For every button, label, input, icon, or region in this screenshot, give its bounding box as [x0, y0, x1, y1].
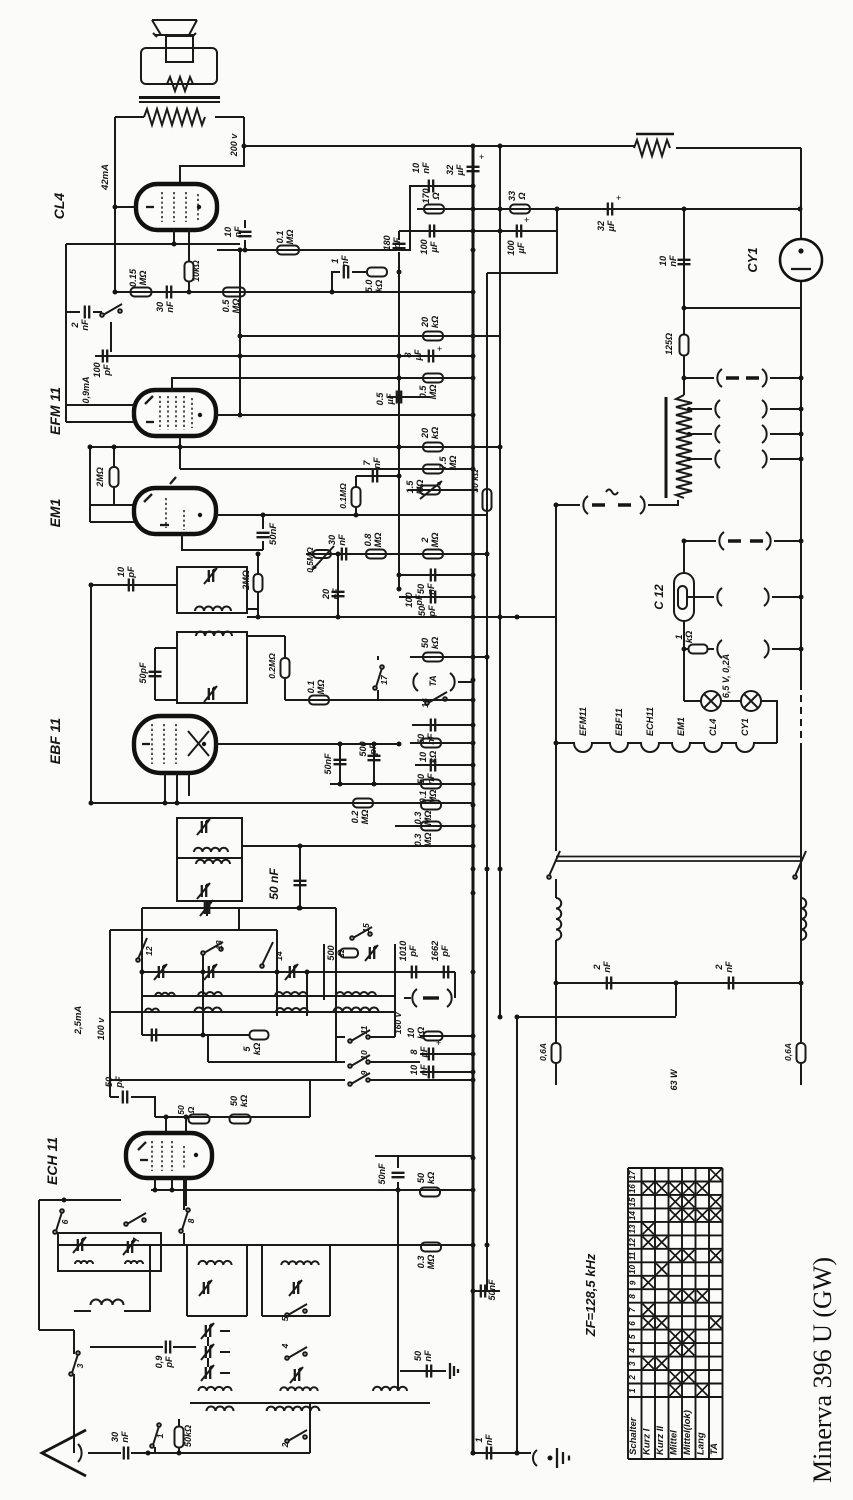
right rail [800, 148, 802, 239]
IF1 upper coil [195, 607, 231, 611]
svg-text:15: 15 [628, 1197, 637, 1207]
svg-text:Ω: Ω [186, 1106, 196, 1114]
capacitor 10nF rail [429, 180, 433, 193]
svg-text:nF: nF [423, 1350, 433, 1362]
svg-text:4: 4 [280, 1343, 290, 1349]
svg-text:0.5: 0.5 [221, 299, 231, 313]
switch 17 [377, 690, 379, 700]
resistor 0.2M b [353, 799, 373, 808]
rail x398 [397, 1190, 399, 1391]
capacitor 50nF if2 [299, 846, 301, 908]
svg-text:2: 2 [70, 322, 80, 329]
osc coil row4 [207, 1407, 234, 1411]
svg-text:EFM 11: EFM 11 [47, 387, 63, 435]
capacitor 20nF [337, 554, 339, 617]
switch 2 [285, 1439, 289, 1443]
resistor 50k b [230, 1115, 251, 1124]
capacitor 1662pF [444, 966, 448, 979]
svg-text:CY1: CY1 [740, 718, 750, 736]
mains switch left [547, 875, 551, 879]
capacitor 10nF anode [244, 240, 246, 250]
tap y459 [688, 458, 712, 460]
switch table grid [628, 1168, 723, 1459]
svg-text:12: 12 [628, 1238, 637, 1248]
svg-text:10: 10 [628, 1265, 637, 1275]
hum-buck coil zigzag [167, 77, 193, 91]
svg-text:MΩ: MΩ [430, 533, 440, 548]
svg-text:10: 10 [409, 1064, 419, 1075]
svg-text:nF: nF [484, 1434, 494, 1446]
svg-text:MΩ: MΩ [415, 480, 425, 495]
capacitor 10pF [91, 584, 177, 586]
svg-text:50: 50 [420, 637, 430, 648]
svg-text:2MΩ: 2MΩ [95, 467, 105, 488]
wire anode to transformer [114, 117, 116, 292]
svg-text:50: 50 [104, 1076, 114, 1087]
svg-text:2MΩ: 2MΩ [241, 570, 251, 591]
tube EBF11 [134, 716, 216, 773]
capacitor 30nF [167, 286, 171, 299]
CL4 cathode leads [174, 229, 189, 262]
svg-text:8: 8 [403, 352, 413, 358]
svg-text:EBF11: EBF11 [614, 708, 624, 736]
wire y336 row [240, 335, 500, 337]
capacitor 50nF e [397, 1182, 399, 1190]
wire x240 [239, 250, 241, 415]
loudspeaker cone [152, 20, 197, 35]
svg-text:kΩ: kΩ [684, 631, 694, 643]
wire y469 row [180, 468, 473, 470]
capacitor 2nF a [607, 977, 611, 990]
wire EM1 left [90, 504, 134, 506]
IF2 bottom trimmer [205, 902, 209, 914]
bus A [472, 146, 475, 1453]
svg-text:100 v: 100 v [96, 1017, 106, 1041]
resistor 170 [424, 205, 444, 214]
svg-text:14: 14 [274, 951, 284, 961]
capacitor 50pF b [110, 1096, 119, 1098]
switch 4 [285, 1356, 289, 1360]
dropper zigzag [676, 395, 692, 498]
svg-text:ECH11: ECH11 [645, 707, 655, 736]
capacitor 0.5uF [388, 396, 430, 398]
svg-text:30: 30 [155, 301, 165, 312]
svg-text:7: 7 [362, 460, 372, 466]
svg-text:0.3: 0.3 [416, 1256, 426, 1269]
svg-text:nF: nF [340, 255, 350, 267]
capacitor 2nF b [729, 977, 733, 990]
capacitor 7nF [356, 475, 399, 477]
svg-text:nF: nF [419, 1064, 429, 1076]
svg-text:11: 11 [628, 1251, 637, 1260]
IF1 upper trimmer [209, 570, 213, 582]
osc coil B [281, 1261, 319, 1265]
IF1 lower box [177, 632, 247, 703]
IF1 lower trimmer [209, 688, 213, 700]
potentiometer 1.5M [420, 486, 440, 495]
resistor 20k b [423, 443, 443, 452]
resistor 33 [510, 205, 530, 214]
svg-text:CL4: CL4 [51, 193, 67, 220]
svg-text:10: 10 [411, 162, 421, 173]
capacitor band [142, 1034, 239, 1036]
svg-text:µF: µF [385, 393, 395, 405]
svg-text:MΩ: MΩ [423, 811, 433, 826]
wire y186 row [410, 185, 473, 187]
resistor 0.8M [366, 550, 386, 559]
svg-text:10: 10 [418, 751, 428, 762]
wire dropper top [683, 355, 685, 395]
CL4 internals [162, 192, 198, 222]
resistor 2M vert [110, 467, 119, 487]
capacitor 50nF c [431, 569, 435, 582]
svg-text:0.5MΩ: 0.5MΩ [305, 547, 315, 573]
svg-text:pF: pF [414, 594, 424, 607]
svg-text:17: 17 [379, 674, 389, 685]
capacitor 100uF a [430, 225, 434, 238]
svg-text:8: 8 [628, 1294, 637, 1299]
IF1 lower coil [196, 632, 232, 637]
switch 10 [208, 1061, 345, 1063]
connector TA [413, 673, 418, 691]
resistor 0.1M c [421, 780, 441, 789]
svg-text:100: 100 [404, 591, 414, 607]
svg-text:17: 17 [628, 1170, 637, 1180]
resistor 50 [189, 1115, 210, 1124]
potentiometer 0.5M [312, 546, 334, 570]
capacitor 100pF b [431, 591, 435, 604]
svg-text:6: 6 [628, 1321, 637, 1326]
resistor 30k on bus B [483, 489, 492, 511]
svg-text:Schalter: Schalter [628, 1416, 639, 1455]
svg-text:Lang: Lang [695, 1432, 706, 1455]
svg-text:C 12: C 12 [652, 584, 666, 610]
svg-text:160 V: 160 V [393, 1011, 403, 1035]
svg-text:30 kΩ: 30 kΩ [470, 469, 480, 493]
svg-text:2: 2 [420, 537, 430, 544]
svg-text:20: 20 [321, 588, 331, 600]
resistor 0.3M c [421, 1243, 441, 1252]
osc box1 coils [75, 1261, 93, 1264]
wire y1190 row [151, 1189, 473, 1191]
switch 13 [201, 951, 205, 955]
svg-text:8: 8 [186, 1218, 196, 1223]
fuse right [797, 1043, 806, 1063]
resistor 0.1M anode [277, 246, 299, 255]
svg-text:pF: pF [408, 945, 418, 958]
svg-text:125Ω: 125Ω [664, 333, 674, 355]
wire x90 [89, 447, 91, 522]
osc frame mid [186, 1245, 188, 1316]
lamp 2 [741, 691, 761, 711]
svg-text:50: 50 [413, 1350, 423, 1361]
capacitor 1nF coupling [332, 272, 340, 292]
svg-text:µF: µF [606, 220, 616, 232]
transformer core [139, 96, 220, 99]
svg-text:16: 16 [628, 1184, 637, 1194]
wire y490 row [408, 489, 478, 491]
svg-text:kΩ: kΩ [430, 637, 440, 649]
svg-text:1010: 1010 [398, 940, 408, 961]
resistor 0.1M vert [352, 487, 361, 507]
svg-text:pF: pF [102, 364, 112, 377]
svg-text:1: 1 [155, 1433, 165, 1438]
resistor 5.0k [367, 268, 387, 277]
EM1 cathode [182, 534, 263, 550]
svg-text:50: 50 [416, 583, 426, 594]
svg-text:kΩ: kΩ [374, 280, 384, 292]
svg-text:EFM11: EFM11 [578, 707, 588, 736]
choke left [555, 879, 557, 898]
choke right [800, 879, 802, 898]
capacitor 500pF [373, 744, 375, 784]
switch 1 [154, 1447, 156, 1453]
svg-text:50: 50 [176, 1105, 186, 1115]
wire y617 row [247, 616, 557, 618]
resistor 125 [680, 335, 689, 356]
EBF11 plate wire [216, 743, 399, 745]
svg-text:50: 50 [417, 605, 427, 616]
svg-text:nF: nF [421, 162, 431, 174]
capacitor 50nF f [400, 1370, 446, 1372]
svg-text:1: 1 [674, 634, 684, 639]
wire y826 row [395, 825, 473, 827]
capacitor 1nF b [487, 1447, 491, 1460]
capacitor 32uF [608, 203, 612, 216]
svg-text:µF: µF [455, 164, 465, 176]
resistor 0.5M b [423, 374, 443, 383]
EFM11 grid top wire [172, 378, 473, 392]
ECH11 bottom leads [155, 1178, 186, 1206]
antenna [42, 1430, 86, 1476]
svg-text:pF: pF [164, 1356, 174, 1369]
svg-text:+: + [437, 344, 442, 354]
capacitor 10nF c [420, 1071, 473, 1073]
svg-text:100: 100 [506, 239, 516, 255]
lamp 1 [701, 691, 721, 711]
svg-text:1662: 1662 [430, 940, 440, 961]
svg-text:50pF: 50pF [138, 662, 148, 684]
capacitor 0.9pF [90, 1346, 163, 1348]
svg-text:4: 4 [628, 1348, 637, 1354]
resistor 0.5M [223, 288, 245, 297]
EFM11 internals [160, 396, 192, 430]
svg-text:+: + [436, 1038, 441, 1048]
svg-text:50nF: 50nF [487, 1279, 497, 1301]
wire y1017 step [517, 1016, 676, 1018]
svg-text:10: 10 [658, 255, 668, 266]
svg-text:10kΩ: 10kΩ [191, 260, 201, 282]
tube CL4 [136, 184, 217, 230]
svg-text:0.15: 0.15 [128, 268, 138, 287]
capacitor 50nF em1 [262, 515, 264, 529]
svg-text:CL4: CL4 [708, 719, 718, 736]
resistor 500 [340, 949, 358, 958]
svg-text:kΩ: kΩ [239, 1095, 249, 1107]
svg-text:30: 30 [327, 534, 337, 545]
svg-text:µF: µF [429, 241, 439, 253]
wire CL4 grid row [217, 186, 473, 250]
svg-text:+: + [524, 215, 529, 225]
IF1 upper box [177, 567, 247, 613]
svg-text:8: 8 [409, 1049, 419, 1055]
svg-text:16: 16 [420, 698, 430, 708]
bus D [516, 1016, 518, 1453]
resistor 5k [250, 1031, 269, 1040]
svg-text:5.0: 5.0 [364, 279, 374, 293]
wire y308 row [684, 307, 801, 309]
lamp wires [684, 700, 701, 702]
CL4 anode wire [115, 206, 136, 208]
wire y803 row [91, 802, 473, 804]
mains connector [556, 504, 580, 506]
tube ECH11 [126, 1133, 212, 1178]
heater chain [556, 743, 777, 752]
svg-text:Ω: Ω [336, 949, 346, 957]
capacitor 10nF d [683, 209, 685, 335]
capacitor 50nF g [473, 1290, 500, 1292]
capacitor 100uF b [517, 225, 521, 238]
IF2 upper box [177, 818, 242, 858]
switch 5 [285, 1313, 289, 1317]
rail x399 [398, 272, 400, 589]
osc trimmer D [294, 1282, 298, 1294]
bus C [499, 146, 501, 1016]
svg-text:10: 10 [359, 1050, 369, 1060]
mains dropper resistor top [636, 133, 674, 136]
wire y983 row [556, 982, 801, 984]
svg-text:nF: nF [337, 534, 347, 546]
svg-text:200 v: 200 v [229, 133, 239, 158]
mains switch right [793, 875, 797, 879]
svg-text:kΩ: kΩ [430, 316, 440, 328]
wire y743 row [410, 742, 473, 744]
box 500ohm [323, 944, 325, 1000]
wire 200V rail [244, 145, 634, 147]
resistor 0.2M vert [281, 658, 290, 678]
svg-text:6,5 V, 0,2A: 6,5 V, 0,2A [721, 654, 731, 698]
svg-text:pF: pF [126, 566, 136, 579]
wire y575 row [399, 574, 473, 576]
capacitor 8uF b [420, 1053, 473, 1055]
svg-text:1: 1 [330, 258, 340, 263]
osc left frame [38, 1200, 40, 1330]
svg-text:kΩ: kΩ [416, 1027, 426, 1039]
svg-text:0,9: 0,9 [154, 1355, 164, 1369]
svg-text:MΩ: MΩ [285, 230, 295, 245]
svg-text:pF: pF [368, 743, 378, 756]
svg-text:180: 180 [382, 234, 392, 250]
EM1 plate wire [216, 514, 487, 516]
svg-text:10: 10 [223, 226, 233, 237]
connector plug [404, 997, 411, 999]
IF2 lower box [177, 858, 242, 901]
svg-text:5: 5 [242, 1046, 252, 1052]
switch 3 [73, 1330, 75, 1354]
loudspeaker magnet [166, 36, 193, 62]
bus B [486, 273, 488, 1291]
svg-text:nF: nF [233, 226, 243, 238]
switch 7 [124, 1222, 128, 1226]
svg-text:50kΩ: 50kΩ [183, 1425, 193, 1447]
svg-text:10: 10 [116, 566, 126, 577]
svg-text:kΩ: kΩ [252, 1043, 262, 1055]
svg-text:13: 13 [214, 940, 224, 950]
svg-text:+: + [616, 193, 621, 203]
svg-text:7.5: 7.5 [438, 456, 448, 470]
output transformer primary winding [115, 116, 144, 118]
svg-text:0.8: 0.8 [363, 533, 373, 547]
svg-text:pF: pF [440, 945, 450, 958]
earth small [450, 1363, 458, 1379]
svg-text:1: 1 [628, 1388, 637, 1393]
switch 11 [336, 1036, 345, 1038]
svg-text:30: 30 [110, 1431, 120, 1442]
svg-text:33: 33 [507, 191, 517, 201]
node stub [65, 244, 67, 422]
trimmer row caps [159, 966, 163, 978]
wire y972 row [142, 971, 455, 973]
svg-text:0.5: 0.5 [375, 392, 385, 406]
wire y700 row [285, 699, 473, 701]
wire y356 row [95, 355, 473, 357]
svg-text:20: 20 [420, 427, 430, 439]
coil row2 [110, 1011, 395, 1013]
ECH11 top leads [166, 1117, 186, 1133]
svg-text:MΩ: MΩ [448, 456, 458, 471]
EM1 internals [166, 498, 184, 530]
switch 16 [425, 701, 429, 705]
svg-text:Ω: Ω [517, 192, 527, 200]
svg-text:Ω: Ω [431, 192, 441, 200]
svg-text:5: 5 [628, 1334, 637, 1339]
IF2 lower coil [196, 860, 230, 864]
svg-text:3: 3 [75, 1363, 85, 1368]
ground arc [533, 1450, 537, 1466]
svg-text:Kurz II: Kurz II [655, 1426, 666, 1455]
switch 14 [260, 964, 264, 968]
switch grid [100, 313, 104, 317]
svg-text:0.1: 0.1 [306, 681, 316, 694]
osc box1 trimmer a [78, 1239, 82, 1251]
svg-text:15: 15 [361, 923, 371, 933]
osc box1 trimmer b [128, 1241, 132, 1253]
ECH11 internals [152, 1141, 184, 1171]
resistor 20k a [423, 332, 443, 341]
osc trimmer stack [206, 1325, 210, 1337]
svg-text:100: 100 [92, 361, 102, 377]
wire y725 row [412, 724, 473, 726]
svg-text:50nF: 50nF [323, 753, 333, 775]
connector y597 [687, 596, 714, 598]
resistor 10kOhm [185, 262, 194, 282]
wire y1403 [190, 1402, 430, 1404]
capacitor 8uF [429, 350, 433, 363]
switch 15 [350, 936, 354, 940]
node 200V [180, 117, 244, 184]
capacitor 30nF ant [124, 1447, 128, 1460]
svg-text:nF: nF [668, 255, 678, 267]
IF2 upper coil [194, 848, 228, 852]
connector y649 [708, 648, 714, 650]
svg-text:42mA: 42mA [100, 164, 111, 191]
svg-text:0,9mA: 0,9mA [81, 376, 91, 403]
svg-text:nF: nF [372, 457, 382, 469]
resistor 2M row [423, 550, 443, 559]
coil left mid [39, 1329, 74, 1331]
tap y434 [688, 433, 712, 435]
EFM11 plate wire [216, 414, 473, 416]
